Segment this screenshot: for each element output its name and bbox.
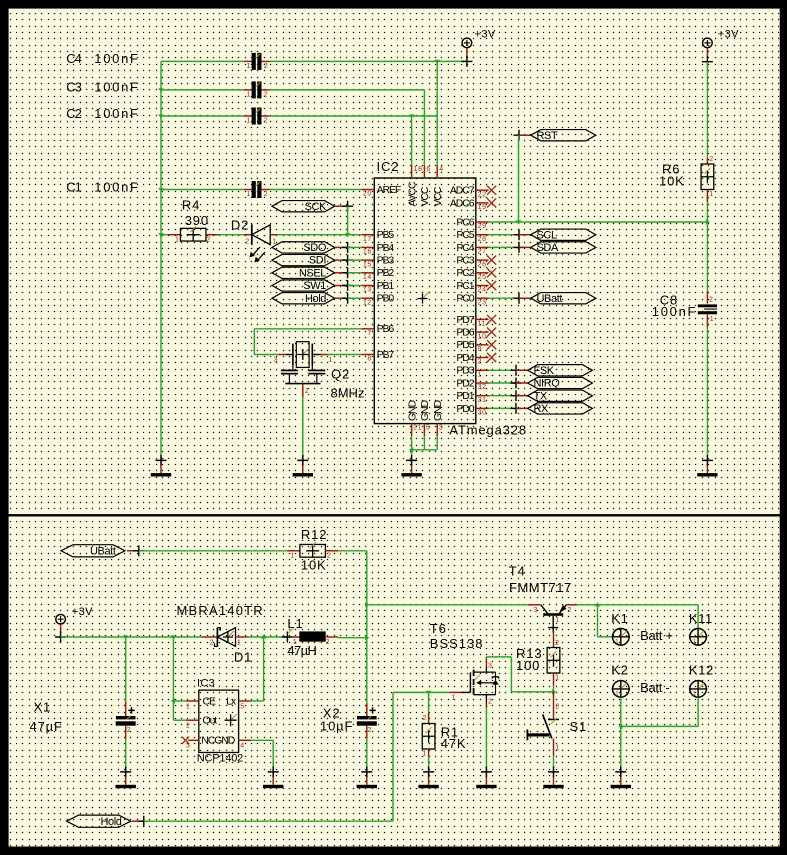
label R13: [516, 646, 542, 673]
svg-text:1: 1: [710, 316, 715, 323]
svg-text:2: 2: [207, 236, 212, 243]
svg-text:24: 24: [478, 287, 487, 294]
net flag TX: [489, 395, 517, 397]
power +3V (bottom): [55, 606, 93, 642]
wire R1 to ground: [428, 757, 430, 767]
wire C3 left: [161, 89, 244, 91]
svg-text:11: 11: [478, 321, 486, 328]
transistor T4 FMMT717 (PNP): [528, 605, 577, 633]
label T6: [430, 621, 484, 651]
svg-text:28: 28: [478, 236, 487, 243]
pin PB0 (12): [362, 293, 395, 307]
svg-text:12: 12: [363, 299, 372, 306]
svg-text:5: 5: [426, 424, 431, 431]
svg-text:2: 2: [305, 388, 310, 395]
svg-text:2: 2: [264, 63, 269, 70]
capacitor C2: [244, 108, 270, 125]
svg-text:PB1: PB1: [377, 280, 395, 292]
svg-text:PB3: PB3: [377, 255, 395, 267]
label X1: [30, 700, 63, 735]
svg-text:1: 1: [423, 751, 428, 758]
svg-text:PD6: PD6: [456, 327, 474, 339]
svg-text:1: 1: [247, 92, 252, 99]
net flag SW1: [272, 280, 353, 292]
wire C1 left: [161, 189, 244, 191]
svg-text:PB5: PB5: [377, 229, 395, 241]
pin ADC6 (19): [450, 197, 496, 211]
label T4: [509, 563, 572, 595]
voltage regulator IC3 NCP1402 box: [199, 690, 239, 752]
svg-text:2: 2: [368, 727, 373, 734]
svg-text:15: 15: [363, 261, 372, 268]
svg-text:L1: L1: [287, 616, 303, 631]
svg-text:NSEL: NSEL: [299, 267, 326, 279]
svg-text:K1: K1: [611, 611, 628, 626]
svg-text:2: 2: [264, 91, 269, 98]
wire C8 to ground: [706, 327, 708, 455]
svg-text:Batt -: Batt -: [640, 680, 669, 695]
svg-text:PD1: PD1: [456, 390, 474, 402]
net flag NIRQ: [489, 382, 517, 384]
net flag RST: [514, 130, 596, 142]
label X2: [320, 706, 353, 734]
wire L1 to node: [338, 637, 367, 639]
wire rail to CE/Out: [171, 637, 186, 720]
svg-text:Hold: Hold: [100, 816, 121, 828]
svg-text:MBRA140TR: MBRA140TR: [177, 603, 264, 618]
resistor R13: [547, 630, 560, 691]
net flag SDA: [489, 246, 520, 248]
svg-text:FSK: FSK: [534, 365, 555, 377]
svg-text:1: 1: [478, 372, 483, 379]
net flag SDI: [272, 254, 353, 266]
svg-text:2: 2: [478, 359, 483, 366]
svg-text:PC0: PC0: [456, 293, 474, 305]
svg-text:100nF: 100nF: [652, 304, 697, 319]
terminal K2: [611, 662, 630, 698]
pin PD6 (10): [456, 327, 496, 341]
switch S1: [527, 692, 560, 756]
wire NSEL: [348, 272, 362, 274]
label Q2: [331, 366, 365, 400]
svg-text:10K: 10K: [301, 557, 327, 572]
pin GND (5) bottom: [419, 399, 431, 436]
svg-text:2: 2: [423, 715, 428, 722]
svg-text:PD3: PD3: [456, 365, 474, 377]
wire X2 to ground: [366, 739, 368, 767]
svg-text:1: 1: [709, 191, 714, 198]
svg-text:10: 10: [478, 333, 487, 340]
svg-text:PC5: PC5: [456, 229, 474, 241]
wire AVCC column pin 18: [411, 116, 413, 165]
pin PB1 (13): [362, 280, 395, 294]
svg-text:+3V: +3V: [72, 606, 93, 618]
svg-text:100nF: 100nF: [94, 80, 139, 95]
svg-text:PC2: PC2: [456, 267, 474, 279]
pin PC2 (25): [456, 267, 496, 281]
label L1: [287, 616, 316, 658]
svg-text:25: 25: [478, 274, 487, 281]
svg-text:1: 1: [291, 553, 296, 560]
svg-text:UBatt: UBatt: [537, 293, 563, 305]
svg-text:30: 30: [478, 410, 487, 417]
svg-text:Q2: Q2: [331, 366, 350, 381]
svg-text:2: 2: [556, 704, 561, 711]
wire +3V to R6: [706, 62, 708, 158]
pin PD3 (1): [456, 365, 488, 379]
svg-text:1: 1: [452, 695, 457, 702]
pin PD4 (2): [456, 352, 496, 366]
svg-text:100nF: 100nF: [94, 179, 139, 194]
wire Lx to node: [251, 637, 263, 701]
svg-text:3: 3: [488, 663, 493, 670]
svg-text:SDI: SDI: [309, 255, 326, 267]
pin CE (1): [186, 701, 199, 710]
svg-text:9: 9: [478, 346, 483, 353]
svg-text:FMMT717: FMMT717: [509, 580, 572, 595]
svg-text:390: 390: [185, 213, 209, 228]
ground (X1): [116, 766, 136, 788]
terminal K1: [611, 611, 630, 646]
junction C4/VCC: [435, 60, 440, 64]
svg-text:AREF: AREF: [377, 184, 401, 196]
pin PB3 (15): [362, 255, 395, 269]
svg-text:T4: T4: [509, 563, 526, 578]
net flag NSEL: [272, 267, 353, 279]
ground (K2): [611, 766, 631, 788]
svg-text:ADC7: ADC7: [450, 185, 475, 197]
svg-text:2: 2: [709, 156, 714, 163]
svg-text:UBatt: UBatt: [90, 546, 116, 558]
pin PC4 (27): [456, 242, 488, 256]
wire SDI: [348, 259, 362, 261]
capacitor C3: [244, 81, 270, 98]
svg-text:X1: X1: [34, 700, 52, 715]
label R1: [441, 724, 467, 751]
net flag Hold (bottom): [67, 815, 150, 828]
wire SW1: [348, 285, 362, 287]
svg-text:GND: GND: [432, 399, 444, 421]
svg-text:IC2: IC2: [377, 159, 400, 174]
label C1: [66, 179, 139, 194]
svg-text:1: 1: [247, 63, 252, 70]
svg-text:PB7: PB7: [377, 349, 395, 361]
wire T6 source to ground: [485, 708, 487, 766]
label R6: [659, 162, 685, 189]
svg-text:27: 27: [478, 249, 487, 256]
svg-text:1: 1: [555, 617, 560, 624]
ground (Q2): [293, 455, 313, 477]
label C8: [652, 292, 697, 319]
svg-text:RST: RST: [537, 130, 558, 142]
net flag UBatt (PC0): [489, 297, 520, 299]
svg-text:1: 1: [237, 639, 242, 646]
capacitor C4: [244, 53, 270, 70]
ground (C8): [697, 455, 717, 477]
capacitor C1: [244, 181, 270, 198]
svg-text:2: 2: [568, 607, 573, 614]
wire SDO: [348, 246, 362, 248]
wire D2-PB5: [277, 233, 362, 237]
svg-text:7: 7: [367, 330, 372, 337]
svg-text:BSS138: BSS138: [430, 636, 484, 651]
pin VCC (4) top: [432, 165, 444, 206]
svg-text:1: 1: [329, 357, 334, 364]
pin PB6 (7): [362, 323, 395, 337]
svg-text:10µF: 10µF: [320, 719, 353, 734]
pin AVCC (18) top: [406, 165, 422, 206]
wire X1 to ground: [125, 739, 127, 767]
svg-text:GND: GND: [406, 399, 418, 421]
svg-text:3: 3: [534, 607, 539, 614]
svg-text:SCK: SCK: [305, 201, 327, 213]
svg-text:8MHz: 8MHz: [331, 385, 365, 400]
svg-text:PD0: PD0: [456, 403, 474, 415]
svg-text:PB2: PB2: [377, 267, 395, 279]
wire T6 drain to R13/S1 node: [486, 657, 556, 695]
net flag UBatt (bottom): [61, 545, 144, 558]
wire C4 left: [161, 60, 244, 62]
pin PD1 (31): [456, 390, 488, 404]
svg-text:D1: D1: [234, 649, 252, 664]
wire Hold/gate: [393, 691, 450, 821]
svg-text:+3V: +3V: [475, 29, 496, 41]
svg-text:3: 3: [186, 743, 191, 750]
wire RST vertical: [516, 135, 521, 224]
svg-text:20: 20: [363, 191, 372, 198]
power +3V (top right): [702, 29, 739, 67]
svg-text:GND: GND: [419, 399, 431, 421]
wire PB7 to crystal: [328, 354, 362, 356]
svg-text:1: 1: [186, 703, 191, 710]
wire UBatt to R12: [139, 550, 287, 552]
svg-text:1: 1: [272, 238, 277, 245]
svg-text:D2: D2: [231, 217, 249, 232]
pin PC0 (23): [456, 293, 488, 307]
svg-text:4: 4: [240, 743, 245, 750]
pin PC5 (28): [456, 229, 488, 243]
svg-text:100nF: 100nF: [94, 106, 139, 121]
svg-text:PB0: PB0: [377, 293, 395, 305]
svg-text:TX: TX: [534, 390, 548, 402]
junction C2/AVCC: [409, 114, 414, 118]
svg-text:1: 1: [556, 745, 561, 752]
svg-text:Out: Out: [203, 715, 218, 727]
svg-text:2: 2: [264, 191, 269, 198]
wire C3 right: [270, 89, 425, 91]
svg-text:3: 3: [439, 424, 444, 431]
svg-text:ATmega328: ATmega328: [449, 423, 527, 438]
svg-text:17: 17: [363, 236, 372, 243]
pin PB5 (17): [362, 229, 395, 243]
net flag Hold: [272, 293, 353, 305]
pin GND (3) bottom: [432, 399, 444, 436]
svg-text:4: 4: [439, 166, 444, 173]
svg-text:2: 2: [327, 553, 332, 560]
wire D1 to L1: [248, 634, 288, 638]
capacitor X1: [116, 637, 136, 739]
svg-text:1: 1: [175, 237, 180, 244]
wire C2 left: [161, 115, 244, 117]
ground (IC3): [263, 766, 283, 788]
svg-text:3: 3: [274, 357, 279, 364]
svg-text:23: 23: [478, 299, 487, 306]
svg-text:100: 100: [516, 658, 540, 673]
LED D2: [244, 224, 277, 262]
pin NCGND (3) n.c.: [182, 737, 199, 750]
svg-text:2: 2: [709, 297, 714, 304]
wire T4 to K1/K11: [577, 602, 698, 637]
wire SCK vertical: [347, 206, 349, 235]
pin PD2 (32): [456, 377, 488, 391]
wire GND vertical left: [158, 61, 163, 455]
capacitor X2: [357, 704, 377, 739]
svg-text:SW1: SW1: [303, 280, 326, 292]
svg-text:PC3: PC3: [456, 255, 474, 267]
pin GND (21) bottom: [406, 399, 422, 436]
pin PB7 (8): [362, 349, 395, 363]
resistor R1: [422, 692, 435, 757]
ground (IC2): [401, 455, 421, 477]
sheet divider: [0, 514, 787, 516]
wire VCC column pin 4: [436, 61, 438, 165]
svg-text:PC1: PC1: [456, 280, 474, 292]
net flag SCK: [272, 201, 353, 213]
svg-text:100nF: 100nF: [94, 51, 139, 66]
wire C1 right: [270, 189, 362, 191]
wire R12 to node: [338, 551, 369, 704]
terminal K11: [689, 611, 713, 646]
pin PB2 (14): [362, 267, 395, 281]
svg-text:Hold: Hold: [305, 293, 326, 305]
svg-text:2: 2: [127, 727, 132, 734]
wire PB6 to crystal: [254, 329, 361, 355]
svg-text:NCP1402: NCP1402: [197, 753, 243, 765]
pin Lx (5): [239, 701, 252, 710]
wire VCC column pin 6: [423, 90, 425, 165]
svg-text:R12: R12: [301, 527, 327, 542]
crystal Q2: [274, 342, 333, 397]
svg-text:+3V: +3V: [718, 29, 739, 41]
svg-text:PC6: PC6: [456, 216, 474, 228]
svg-text:19: 19: [478, 204, 487, 211]
wire PC6 row: [489, 219, 711, 224]
wire S1 to ground: [553, 756, 555, 767]
svg-text:47µH: 47µH: [287, 643, 316, 658]
svg-text:S1: S1: [570, 719, 588, 734]
sheet 2 background (dot grid): [9, 516, 780, 846]
pin PD7 (11): [456, 314, 496, 328]
ground (X2): [357, 766, 377, 788]
svg-text:SDO: SDO: [303, 242, 326, 254]
svg-text:K11: K11: [689, 611, 713, 626]
label C4: [66, 51, 139, 66]
svg-text:PC4: PC4: [456, 242, 474, 254]
ground (C1-C4 / R4): [151, 455, 171, 477]
svg-text:C2: C2: [66, 106, 81, 121]
resistor R12: [287, 542, 338, 559]
net flag SCL: [489, 234, 520, 236]
pin PC1 (24): [456, 280, 496, 294]
svg-text:21: 21: [413, 424, 422, 431]
svg-text:PB4: PB4: [377, 242, 395, 254]
svg-text:C1: C1: [66, 179, 81, 194]
svg-text:31: 31: [478, 397, 487, 404]
svg-text:1: 1: [555, 675, 560, 682]
wire GND pins join: [409, 436, 437, 455]
svg-text:16: 16: [363, 249, 372, 256]
pin PB4 (16): [362, 242, 395, 256]
svg-text:5: 5: [240, 703, 245, 710]
pin PD0 (30): [456, 403, 488, 417]
svg-text:RX: RX: [534, 403, 550, 415]
label C2: [66, 106, 139, 121]
label R4: [182, 198, 209, 228]
svg-text:PD7: PD7: [456, 314, 474, 326]
svg-text:47K: 47K: [441, 736, 467, 751]
wire C4 right: [270, 60, 467, 62]
pin PC3 (26): [456, 255, 496, 269]
svg-text:VCC: VCC: [419, 186, 431, 206]
ground (R1): [418, 766, 438, 788]
svg-text:AVCC: AVCC: [406, 181, 418, 207]
svg-text:K12: K12: [689, 662, 714, 677]
wire +3V rail: [61, 635, 202, 639]
wire R6 to PC6 row: [706, 202, 708, 222]
svg-text:29: 29: [478, 223, 487, 230]
svg-text:T6: T6: [430, 621, 447, 636]
wire Q2 to ground: [302, 397, 304, 455]
svg-text:NIRQ: NIRQ: [534, 378, 561, 390]
net flag FSK: [489, 369, 517, 371]
svg-text:14: 14: [363, 274, 372, 281]
capacitor C8: [698, 291, 717, 328]
svg-text:2: 2: [245, 238, 250, 245]
wire Hold: [348, 297, 362, 299]
pin PD5 (9): [456, 339, 496, 353]
wire R4-D2: [219, 234, 244, 236]
svg-text:1: 1: [247, 191, 252, 198]
wire node to T4: [367, 604, 528, 606]
svg-text:10K: 10K: [659, 173, 685, 188]
svg-text:PB6: PB6: [377, 323, 395, 335]
pin ADC7 (22): [450, 185, 496, 199]
power +3V (top center): [461, 29, 495, 67]
pin GND (4): [239, 740, 252, 749]
wire IC3 gnd: [251, 740, 273, 766]
svg-text:26: 26: [478, 261, 487, 268]
diode D1 MBRA140TR: [202, 628, 248, 647]
label R12: [301, 527, 327, 572]
pin AREF (20): [362, 184, 401, 198]
net flag RX: [489, 407, 517, 409]
svg-text:2: 2: [264, 117, 269, 124]
wire Hold: [144, 820, 393, 822]
svg-text:2: 2: [326, 639, 331, 646]
pin PC6 (29): [456, 216, 488, 230]
ground (S1): [543, 766, 563, 788]
resistor R6: [701, 156, 714, 202]
svg-text:Batt +: Batt +: [640, 628, 673, 643]
terminal K12: [689, 662, 714, 698]
svg-text:C4: C4: [66, 51, 81, 66]
svg-text:22: 22: [478, 191, 487, 198]
svg-text:2: 2: [488, 698, 493, 705]
wire C2 right: [270, 115, 437, 117]
svg-text:47µF: 47µF: [30, 719, 63, 734]
svg-text:IC3: IC3: [197, 678, 215, 690]
svg-text:13: 13: [363, 287, 372, 294]
